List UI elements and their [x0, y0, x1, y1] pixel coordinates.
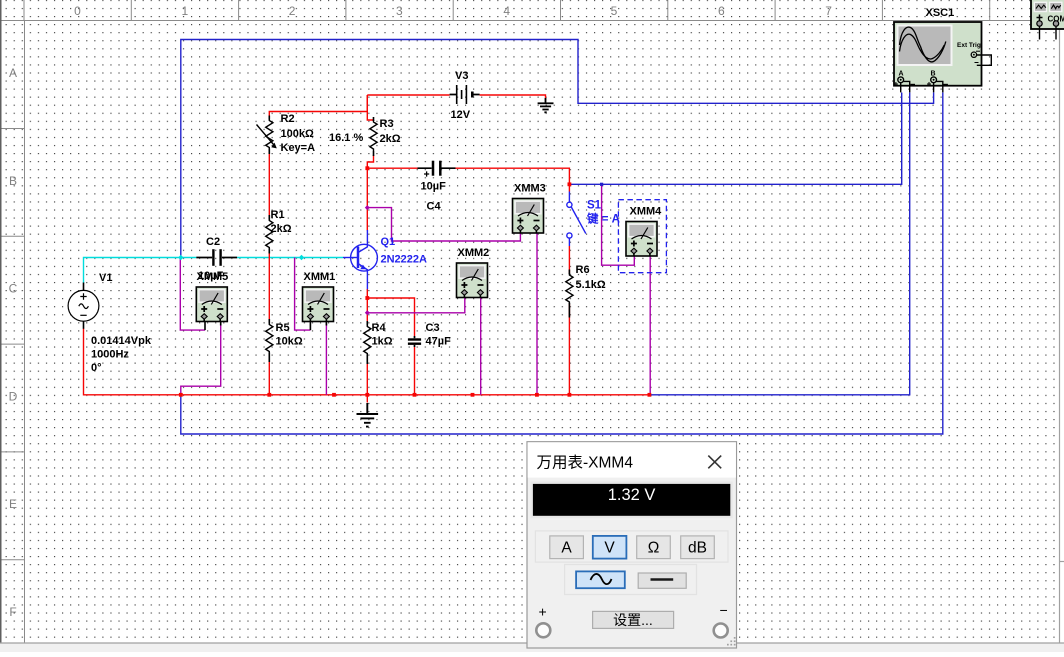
svg-text:0: 0	[74, 4, 81, 18]
wire: R1 bottom to R5 (red)	[268, 250, 270, 323]
svg-text:R4: R4	[372, 322, 387, 334]
svg-text:dB: dB	[688, 540, 707, 557]
wire: bus to bottom ground (red stub)	[366, 395, 368, 403]
scope channel B pin	[927, 71, 948, 93]
dialog button group frame	[535, 531, 728, 562]
svg-text:R6: R6	[576, 264, 590, 276]
svg-text:R5: R5	[276, 322, 290, 334]
AC source V1	[68, 283, 99, 329]
top ruler	[0, 0, 1060, 21]
svg-text:Ext Trig: Ext Trig	[957, 42, 981, 49]
node: bus R6 junction	[568, 393, 572, 397]
wire: XMM5- to bus (purple)	[181, 322, 221, 395]
resistor lead stubs (black)	[269, 116, 569, 365]
dialog resize grip	[727, 637, 736, 646]
svg-text:Ω: Ω	[648, 540, 660, 557]
svg-text:Q1: Q1	[381, 236, 396, 248]
wire: Vcc rail R2 top (red)	[269, 95, 367, 119]
svg-text:10µF: 10µF	[421, 181, 447, 193]
svg-text:C2: C2	[206, 236, 220, 248]
svg-text:设置...: 设置...	[613, 612, 653, 628]
svg-text:S1: S1	[587, 200, 602, 212]
svg-text:2kΩ: 2kΩ	[380, 133, 401, 145]
svg-text:D: D	[9, 389, 18, 403]
label R6	[576, 264, 606, 291]
multimeter XMM5	[196, 287, 227, 322]
wire: R6 bottom to bus (red)	[568, 304, 570, 395]
label R1	[271, 209, 292, 235]
wire: V1 bottom to ground bus (red)	[84, 329, 650, 395]
svg-text:5.1kΩ: 5.1kΩ	[576, 279, 606, 291]
svg-text:+: +	[539, 604, 547, 620]
dialog close button	[708, 456, 721, 469]
svg-text:B: B	[9, 174, 17, 188]
ground (top, near V3)	[538, 98, 554, 112]
node: emitter junction	[365, 296, 369, 300]
svg-text:XSC1: XSC1	[926, 7, 955, 19]
svg-text:1.32 V: 1.32 V	[608, 486, 656, 504]
label R4	[372, 322, 393, 348]
dialog button V (selected)	[593, 536, 627, 559]
XMM1 pin stubs	[310, 322, 326, 331]
svg-text:C4: C4	[427, 201, 442, 213]
wire: scope A+ probe (blue) to output node	[569, 93, 901, 185]
node: bus C3 junction	[413, 393, 417, 397]
label V1 parameters	[91, 335, 152, 374]
multimeter XMM3	[513, 199, 544, 234]
wire: XMM1+ to input node (purple)	[295, 258, 311, 331]
battery V3	[450, 85, 480, 104]
node: bus XMM2 junction	[471, 393, 475, 397]
function generator (partial, top right)	[1031, 0, 1064, 40]
svg-text:XMM3: XMM3	[514, 183, 546, 195]
wire: emitter to R4 (red)	[366, 289, 368, 325]
right border	[1059, 21, 1061, 644]
svg-text:2kΩ: 2kΩ	[271, 223, 292, 235]
switch S1	[567, 192, 586, 247]
dialog AC button (selected)	[576, 571, 625, 588]
svg-text:R1: R1	[271, 209, 285, 221]
svg-text:E: E	[9, 497, 17, 511]
svg-text:3: 3	[396, 4, 403, 18]
wire: input net blue riser to scope B+	[181, 40, 934, 258]
wire: R3 top jog (red)	[367, 95, 373, 120]
wire: R4 bottom to bus (red)	[366, 356, 368, 395]
svg-text:0°: 0°	[91, 362, 102, 374]
svg-text:XMM1: XMM1	[304, 271, 336, 283]
oscilloscope XSC1	[894, 22, 982, 86]
wire: V1 output (cyan) to C2	[84, 258, 197, 284]
label R2	[281, 113, 316, 154]
wire: C2 right to Q1 base (cyan)	[237, 257, 343, 259]
potentiometer R2	[257, 119, 277, 150]
resistor R3	[370, 120, 377, 151]
capacitor C2	[196, 249, 237, 266]
scope ext trig pin	[971, 51, 991, 65]
capacitor C3	[408, 336, 421, 347]
node: bus V1/XMM5 junction	[179, 393, 183, 397]
svg-text:1000Hz: 1000Hz	[91, 349, 129, 361]
window left border	[0, 0, 2, 643]
ground (bottom, emitter bus)	[357, 403, 379, 427]
svg-text:V: V	[604, 540, 615, 557]
node: XMM1 input tap (cyan)	[299, 255, 304, 260]
wire: XMM2- to bus (purple)	[480, 298, 482, 395]
wire: XMM1- to bus (purple)	[325, 322, 327, 395]
svg-text:R2: R2	[281, 113, 295, 125]
multimeter XMM2	[457, 263, 488, 298]
label R3	[380, 118, 401, 145]
scope channel A pin	[894, 71, 915, 93]
wire: XMM5+ to input node (purple)	[180, 258, 205, 331]
dialog button Ohm	[637, 536, 671, 559]
svg-text:1kΩ: 1kΩ	[372, 336, 393, 348]
svg-text:V1: V1	[99, 272, 112, 284]
wire: collector node to XMM3+ (purple)	[367, 208, 520, 241]
svg-text:XMM4: XMM4	[630, 206, 663, 218]
svg-text:10kΩ: 10kΩ	[276, 336, 303, 348]
wire: XMM4- to bus end (purple)	[649, 256, 651, 395]
wire: switch to R6 (red)	[568, 246, 570, 273]
node: output/switch junction	[568, 182, 572, 186]
node: bus XMM1 junction	[332, 393, 336, 397]
svg-text:键 = A: 键 = A	[586, 212, 620, 226]
svg-text:0.01414Vpk: 0.01414Vpk	[91, 335, 152, 347]
svg-text:2: 2	[289, 4, 296, 18]
multimeter XMM4 dialog window	[527, 442, 737, 648]
svg-text:100kΩ: 100kΩ	[281, 128, 314, 140]
svg-text:12V: 12V	[451, 109, 471, 121]
wire: Vcc rail to battery and ground (red)	[367, 95, 545, 101]
node: bus end XMM4 junction	[648, 393, 652, 397]
wire: collector riser (red)	[366, 168, 368, 230]
node: XMM4 tap on scope wire	[600, 183, 603, 186]
wire: emitter node to C3 (red)	[367, 298, 414, 395]
resistor R6	[566, 273, 573, 304]
svg-text:F: F	[9, 605, 16, 619]
resistor R1	[266, 219, 273, 250]
svg-text:−: −	[720, 602, 728, 618]
svg-text:XMM2: XMM2	[458, 247, 490, 259]
multimeter XMM4	[626, 222, 657, 257]
wire: R2 bottom to R1 (red)	[268, 150, 270, 219]
wire: output node to XMM4+ (purple)	[602, 184, 635, 265]
wire: XMM3- to bus (purple)	[536, 233, 538, 395]
svg-text:V3: V3	[455, 70, 468, 82]
svg-text:5: 5	[611, 4, 618, 18]
svg-text:1: 1	[181, 4, 188, 18]
svg-text:Key=A: Key=A	[281, 142, 316, 154]
svg-text:2N2222A: 2N2222A	[381, 254, 428, 266]
svg-text:4: 4	[503, 4, 510, 18]
svg-text:XMM5: XMM5	[197, 271, 229, 283]
wire: ground net to scope B-	[181, 93, 943, 435]
transistor Q1 2N2222A	[343, 230, 377, 289]
wire: R3 bottom to collector node (red)	[367, 155, 373, 168]
node: collector XMM3 tap (purple)	[365, 205, 370, 210]
node: collector/R3 junction	[365, 166, 369, 170]
resistor R5	[266, 323, 273, 354]
svg-text:A: A	[9, 66, 17, 80]
svg-text:C3: C3	[426, 322, 440, 334]
wire: emitter node to XMM2+ (purple)	[367, 298, 465, 313]
svg-text:R3: R3	[380, 118, 394, 130]
node: bus XMM3 junction	[535, 393, 539, 397]
dialog button A	[550, 536, 584, 559]
dialog display	[532, 483, 732, 517]
svg-text:7: 7	[825, 4, 832, 18]
wire: ground bus blue extension to scope A-	[649, 93, 909, 395]
svg-text:16.1 %: 16.1 %	[329, 132, 363, 144]
node: input junction (cyan)	[178, 255, 183, 260]
svg-text:6: 6	[718, 4, 725, 18]
multimeter XMM1	[303, 287, 334, 322]
left ruler	[0, 21, 25, 657]
svg-text:47µF: 47µF	[426, 336, 452, 348]
selection box around XMM4	[618, 200, 666, 273]
dialog settings button	[593, 611, 674, 628]
bottom scrollbar	[0, 643, 1064, 652]
dialog DC button	[638, 573, 686, 588]
node: emitter XMM2 tap (purple)	[365, 310, 370, 315]
dialog button dB	[681, 536, 715, 559]
wire: collector node to C4 and switch (red)	[367, 168, 569, 191]
capacitor C4 (polarized)	[418, 161, 456, 177]
svg-text:C: C	[9, 282, 18, 296]
svg-text:A: A	[561, 540, 572, 557]
label R5	[276, 322, 303, 348]
wire: R5 bottom to bus (red)	[268, 354, 270, 395]
node: bus ground junction	[365, 393, 369, 397]
resistor R4	[364, 325, 371, 356]
node: bus R5 junction	[267, 393, 271, 397]
svg-text:万用表-XMM4: 万用表-XMM4	[537, 454, 634, 472]
XMM5 pin stubs	[205, 322, 221, 331]
